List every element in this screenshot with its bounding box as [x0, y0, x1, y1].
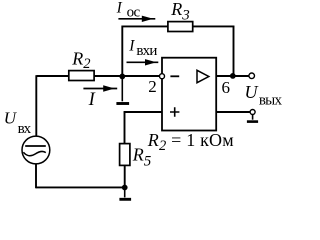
op-amp minus input sign: [170, 75, 179, 77]
wire R2 to inverting input pin 2: [94, 75, 160, 77]
svg-text:I: I: [128, 38, 135, 55]
wire bottom rail to node B: [36, 186, 125, 188]
node C junction dot (output): [230, 73, 236, 79]
wire input rail from source to R2: [37, 75, 69, 77]
svg-text:ос: ос: [127, 5, 141, 21]
ground at node B: [119, 188, 131, 200]
op-amp triangle symbol: [197, 70, 209, 82]
current arrow I: [83, 85, 117, 91]
svg-text:U: U: [245, 82, 259, 102]
ground at lower output terminal: [247, 115, 258, 122]
AC source inner line: [25, 145, 46, 147]
wire non-inverting input horizontal: [124, 111, 162, 113]
node B junction dot (bottom): [122, 185, 128, 191]
svg-text:вхи: вхи: [136, 43, 157, 59]
svg-text:2: 2: [148, 77, 157, 96]
pin 2 terminal circle: [160, 74, 165, 79]
AC source U vx circle: [22, 136, 50, 164]
wire source bottom to bottom rail: [35, 164, 37, 188]
wire left vertical from input rail down to source: [35, 75, 37, 136]
current arrow I os: [118, 16, 155, 22]
svg-text:вх: вх: [18, 121, 32, 137]
wire R5 bottom to node B: [124, 165, 126, 188]
label I os: [116, 0, 141, 21]
wire output pin 6 to terminal: [216, 75, 249, 77]
resistor R3: [168, 22, 193, 32]
wire feedback vertical from node A up: [121, 26, 123, 77]
label U vx: [4, 108, 32, 137]
label U vyh: [245, 82, 283, 109]
wire feedback right vertical down to output node: [233, 26, 235, 76]
wire non-inverting vertical down to R5: [124, 111, 126, 143]
resistor R2: [69, 71, 94, 81]
lower output terminal circle: [250, 110, 255, 115]
label I vhi: [128, 38, 157, 59]
svg-text:6: 6: [222, 78, 231, 97]
AC source inner tilde: [23, 151, 45, 155]
wire feedback top left to R3: [122, 25, 168, 27]
svg-text:U: U: [4, 108, 18, 127]
op-amp U1 body: [162, 58, 216, 131]
op-amp plus input sign: [170, 107, 179, 116]
node A junction dot (inverting input): [119, 74, 125, 80]
svg-text:I: I: [116, 0, 123, 16]
svg-text:вых: вых: [259, 93, 283, 109]
svg-text:I: I: [88, 90, 96, 110]
resistor R5: [120, 144, 130, 166]
wire lower output to grounded terminal: [216, 111, 250, 113]
current arrow I vhi: [127, 59, 159, 65]
wire R3 to top right corner: [193, 25, 235, 27]
output terminal circle (upper): [249, 73, 255, 79]
ground at node A: [116, 77, 129, 104]
